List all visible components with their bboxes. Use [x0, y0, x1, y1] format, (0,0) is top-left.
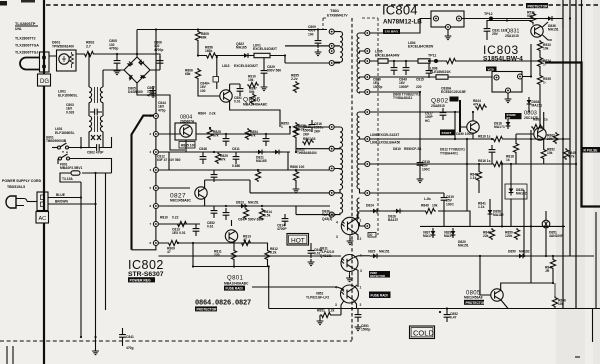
svg-text:4.7k: 4.7k [568, 155, 575, 159]
resistor R915 [243, 208, 248, 220]
svg-text:HOT: HOT [291, 237, 305, 244]
T801 primary pin e [329, 146, 334, 151]
svg-text:TBD5154-5: TBD5154-5 [7, 185, 25, 189]
black box PWM DETECTOR [369, 271, 390, 278]
wire rail down to IC802 pin1 [155, 30, 157, 114]
T801 primary winding 3 [334, 127, 342, 149]
capacitor C814 [282, 214, 289, 226]
black box STAND BY [505, 113, 522, 119]
svg-text:ETX98M417V: ETX98M417V [327, 14, 348, 18]
inductor L804 [418, 59, 430, 63]
transistor Q803 [534, 128, 546, 140]
T801 secondary winding 2 [357, 51, 365, 78]
capacitor C809 rail [317, 28, 319, 30]
svg-text:ELF18060SL: ELF18060SL [55, 131, 75, 135]
svg-text:0.61: 0.61 [207, 225, 214, 229]
svg-text:EXCELB4CM2W: EXCELB4CM2W [408, 45, 434, 49]
capacitor C853 [211, 170, 218, 182]
capacitor C851a [237, 84, 244, 96]
wire row y256 [380, 255, 594, 257]
svg-text:100: 100 [308, 32, 314, 36]
T801 primary pin g [329, 190, 334, 195]
svg-text:IO: IO [369, 233, 373, 237]
wire pin3 row [159, 152, 291, 170]
svg-text:67k: 67k [220, 158, 226, 162]
svg-text:3: 3 [335, 303, 337, 307]
svg-text:TPW58061400: TPW58061400 [52, 45, 74, 49]
resistor R856 [205, 53, 217, 58]
T801 secondary pin b [365, 49, 370, 54]
T801 secondary winding 1 [357, 33, 365, 53]
svg-text:1.5k: 1.5k [264, 214, 271, 218]
svg-text:TP12: TP12 [484, 12, 493, 16]
svg-text:STR-S6307: STR-S6307 [128, 271, 164, 278]
transistor Q831 [531, 25, 543, 37]
HOT box [287, 234, 309, 246]
svg-text:1-: 1- [543, 81, 546, 85]
wire cold rail drop [592, 309, 594, 343]
svg-text:MA151: MA151 [548, 28, 559, 32]
svg-text:EXCELS4CM2T: EXCELS4CM2T [253, 47, 277, 51]
svg-text:ELF18060SL: ELF18060SL [58, 94, 78, 98]
svg-text:DETECTOR: DETECTOR [370, 274, 385, 278]
capacitor C829 [263, 58, 265, 66]
diode D823 [238, 204, 248, 209]
T801 secondary winding 7 [357, 193, 365, 226]
transistor Q805 [491, 289, 503, 301]
AC plug [6, 196, 37, 208]
diode D834 [527, 97, 532, 107]
svg-text:100C: 100C [446, 202, 455, 206]
T801 secondary winding 4 [357, 112, 365, 139]
capacitor C855 [263, 134, 270, 146]
resistor R849 [424, 208, 436, 213]
diode D825 [358, 255, 370, 257]
svg-text:MA1?1: MA1?1 [494, 125, 505, 129]
wire mesh vertical c [287, 152, 289, 170]
svg-text:R849: R849 [421, 204, 429, 208]
AC box [36, 212, 49, 224]
T801 primary pin c [329, 61, 334, 66]
wire Q831 circuit [487, 5, 552, 40]
svg-text:68k: 68k [201, 36, 207, 40]
capacitor C849 [405, 61, 407, 63]
wire right mesh vertical c [501, 164, 503, 226]
wire [216, 57, 218, 89]
svg-text:4700p: 4700p [147, 93, 156, 97]
IC802 outline [132, 116, 156, 250]
diode D836 [545, 16, 555, 21]
svg-text:UNL: UNL [15, 27, 22, 31]
thick bus wire [545, 63, 600, 207]
wire start circuit row [198, 46, 329, 63]
IC802 pin 2 [153, 132, 158, 137]
T801 secondary pin e [365, 90, 370, 95]
svg-text:PROTECTOR: PROTECTOR [528, 4, 549, 8]
svg-text:THB8448404: THB8448404 [297, 151, 317, 155]
T801 primary pin d [329, 125, 334, 130]
svg-text:500V 560: 500V 560 [267, 69, 281, 73]
svg-text:1EX 0.01: 1EX 0.01 [172, 231, 186, 235]
svg-text:D823: D823 [236, 201, 244, 205]
ground IC803 [507, 93, 509, 96]
svg-text:MBA1048AABC: MBA1048AABC [243, 103, 268, 107]
mains vertical runs to bottom [81, 173, 112, 337]
resistor R847 [550, 258, 555, 270]
svg-text:T3.15A: T3.15A [62, 177, 73, 181]
black box START [440, 130, 455, 136]
resistor R850 [514, 228, 519, 240]
wire primary pin c left row [284, 54, 286, 56]
capacitor C851 [351, 307, 353, 309]
svg-text:BA157: BA157 [388, 218, 398, 222]
capacitor C806 [150, 56, 160, 70]
COLD box [410, 326, 435, 339]
T801 primary pin extra [329, 49, 334, 54]
degauss connector CN601 [40, 52, 50, 72]
svg-text:R851: R851 [317, 309, 325, 313]
wire mesh vertical a [168, 152, 170, 170]
opto coupler D836 [341, 217, 358, 234]
inductor L8V1 [254, 53, 270, 57]
svg-text:2SA8515: 2SA8515 [431, 104, 445, 108]
svg-text:T801: T801 [330, 8, 340, 13]
svg-text:ELE18M101K: ELE18M101K [430, 70, 451, 74]
resistor R858 [445, 58, 457, 63]
resistor R826 [255, 170, 260, 182]
svg-text:470p: 470p [158, 108, 166, 112]
svg-text:MA1?: MA1? [444, 234, 453, 238]
T801 primary winding 6 [334, 193, 342, 215]
svg-text:12V REG: 12V REG [385, 30, 399, 34]
T801 secondary pin g [365, 137, 370, 142]
resistor R825b [207, 128, 212, 140]
wire down to row [193, 243, 269, 267]
svg-text:220: 220 [416, 85, 422, 89]
svg-text:JR: JR [545, 269, 550, 273]
resistor R865 [179, 142, 195, 149]
scan shading right edge [556, 0, 600, 364]
svg-text:470g: 470g [126, 346, 134, 350]
svg-text:4AN100R: 4AN100R [549, 234, 564, 238]
svg-text:50k: 50k [249, 90, 255, 94]
svg-text:4: 4 [336, 221, 338, 225]
capacitor C818 [417, 158, 424, 170]
IC802 pin numbers [150, 114, 152, 245]
wire filter to bridge [103, 69, 124, 71]
svg-text:TLX2806TTGA: TLX2806TTGA [15, 44, 39, 48]
svg-text:D4SBS60: D4SBS60 [128, 90, 143, 94]
T801 secondary pin d [365, 75, 370, 80]
svg-text:10k: 10k [547, 151, 553, 155]
wire BLUE [48, 197, 81, 199]
cold ground rail [269, 308, 600, 310]
line filter L601 [89, 54, 103, 148]
svg-text:4700p: 4700p [154, 48, 163, 52]
wire DG to posistor [44, 56, 57, 74]
svg-text:MBA0F2.5BV1: MBA0F2.5BV1 [60, 166, 83, 170]
svg-text:47k: 47k [473, 103, 479, 107]
svg-text:ECE82C22U15E: ECE82C22U15E [441, 90, 467, 94]
svg-text:PROTECTOR: PROTECTOR [197, 308, 218, 312]
wire secondary pin g row [370, 138, 570, 140]
svg-text:HC: HC [425, 119, 430, 123]
capacitor C856 [223, 208, 230, 220]
T801 secondary pin i [365, 191, 370, 196]
svg-text:D824: D824 [366, 204, 374, 208]
svg-text:MA151: MA151 [458, 244, 469, 248]
capacitor C840 [393, 61, 395, 63]
inductor L808 [436, 75, 448, 79]
svg-text:100C: 100C [422, 167, 431, 171]
wire right mesh vertical d [523, 190, 525, 256]
small mark bottom right [575, 356, 580, 358]
wire pin4 to transformer [290, 169, 329, 171]
svg-text:TLX2806TT2: TLX2806TT2 [15, 37, 36, 41]
svg-text:TP11: TP11 [428, 54, 436, 58]
svg-text:120k: 120k [505, 234, 513, 238]
diode D821 [255, 150, 265, 155]
svg-text:1500p: 1500p [361, 328, 370, 332]
junction dots mesh [295, 151, 297, 153]
svg-text:Q43(3): Q43(3) [322, 217, 332, 221]
wire secondary pin a to IC804 [370, 19, 431, 34]
T801 primary winding 4 [334, 149, 342, 169]
svg-text:MA151: MA151 [248, 201, 259, 205]
wire right mesh vertical b [466, 139, 468, 211]
T801 secondary pin a [365, 31, 370, 36]
opto coupler Q825 [341, 255, 358, 272]
wire secondary pin i row [370, 192, 444, 194]
inductor L815 [378, 59, 388, 63]
capacitor C815 [428, 63, 430, 66]
svg-text:BY: BY [507, 116, 511, 120]
svg-text:0.033: 0.033 [66, 110, 74, 114]
svg-text:0864.0826.0827: 0864.0826.0827 [195, 300, 251, 308]
test point TP12 [489, 17, 493, 21]
bridge + output wire [136, 30, 138, 58]
wire primary pin g left [250, 192, 329, 194]
svg-text:1: 1 [360, 286, 362, 290]
svg-text:R PULSE: R PULSE [584, 149, 598, 153]
bridge - output, capacitor C807 [137, 83, 185, 150]
AC connector CN801 [37, 192, 48, 211]
capacitor C841 [122, 328, 124, 330]
black box VCB [486, 67, 497, 72]
resistor R855 [293, 122, 298, 134]
transistor Q813 [225, 230, 237, 242]
svg-text:2SC1475: 2SC1475 [524, 116, 538, 120]
op-amp U IC804 body [431, 11, 464, 27]
diode D838 in box [505, 184, 527, 199]
svg-text:M8C2456A8: M8C2456A8 [464, 296, 483, 300]
wire IC804 out TP12 [462, 19, 564, 29]
capacitor C842 [223, 134, 230, 146]
chassis edge thick vertical line [43, 0, 45, 364]
svg-text:MA165: MA165 [256, 159, 267, 163]
ground IC804 [447, 30, 449, 34]
svg-text:1s: 1s [544, 118, 548, 122]
svg-text:1500p: 1500p [373, 85, 382, 89]
svg-text:0.22: 0.22 [172, 216, 179, 220]
svg-text:68k: 68k [185, 72, 191, 76]
wire Q804 collector row [196, 127, 290, 134]
resistor R848 [476, 170, 481, 182]
resistor R825 [215, 152, 220, 164]
svg-text:S1854LBW-4: S1854LBW-4 [483, 55, 523, 62]
svg-text:C841: C841 [126, 335, 134, 339]
svg-text:MA171: MA171 [423, 234, 434, 238]
T801 secondary winding 3 [357, 77, 365, 93]
svg-text:R866 100: R866 100 [290, 165, 304, 169]
IC803 pin 1 [518, 74, 523, 79]
svg-text:R807 33: R807 33 [303, 137, 316, 141]
transistor Q802 [467, 121, 479, 133]
resistor R811 [231, 249, 236, 261]
resistor R802 [83, 51, 95, 56]
svg-text:22k: 22k [483, 234, 489, 238]
svg-text:L808 EXCELBAA50: L808 EXCELBAA50 [370, 141, 400, 145]
resistor R846 [552, 296, 557, 308]
wire pin8 to opto row [159, 255, 342, 257]
T801 secondary winding 5 [357, 139, 365, 164]
svg-text:L-8s: L-8s [424, 197, 431, 201]
wire primary pin h left [296, 206, 329, 215]
IC802 pin 4 [153, 168, 158, 173]
capacitor C816 [309, 120, 316, 132]
T801 secondary pin h [365, 162, 370, 167]
switch S601a [52, 143, 92, 149]
svg-text:67k: 67k [213, 134, 219, 138]
diode Q822 [241, 53, 251, 58]
wire primary pin b left [285, 45, 329, 47]
svg-text:R865 100: R865 100 [181, 144, 195, 148]
wire opto to cold rail [354, 300, 357, 309]
resistor R535 [537, 74, 542, 86]
capacitor C84A [310, 243, 312, 246]
svg-text:0.47: 0.47 [450, 316, 457, 320]
resistor R834 [537, 56, 542, 68]
switch S601b [58, 151, 112, 173]
diode D829 [451, 228, 456, 238]
bridge rectifier D805 [124, 57, 150, 83]
svg-text:FUSE RADI: FUSE RADI [371, 294, 388, 298]
svg-text:D810: D810 [393, 147, 401, 151]
svg-text:1k: 1k [506, 158, 510, 162]
wire cord tails bottom left [7, 346, 13, 364]
scan corner mark [0, 1, 7, 6]
svg-text:0.01: 0.01 [234, 100, 241, 104]
svg-text:C802 470P: C802 470P [87, 151, 104, 155]
capacitor C811 [233, 152, 240, 164]
diode D850 [516, 254, 526, 259]
LED D851 [542, 211, 550, 256]
T801 secondary pin f [365, 110, 370, 115]
bottom isolation dashed line [0, 340, 352, 342]
svg-text:1000P: 1000P [399, 85, 409, 89]
svg-text:100: 100 [200, 89, 206, 93]
svg-text:3: 3 [336, 235, 338, 239]
svg-text:R810: R810 [160, 216, 168, 220]
svg-text:FUSE RADI: FUSE RADI [226, 287, 243, 291]
svg-text:L813: L813 [222, 64, 230, 68]
wire down to cold rail [268, 267, 270, 309]
node [88, 53, 90, 55]
svg-text:D850: D850 [508, 250, 516, 254]
junction dots right area [562, 138, 564, 140]
wire pin6 row [159, 205, 331, 207]
12V rail [370, 60, 545, 62]
CRT socket label block [15, 22, 39, 55]
IC804 pin 3 [434, 16, 439, 21]
diode D837 [431, 228, 436, 238]
svg-text:C815: C815 [416, 78, 424, 82]
IC802 pin 1 [153, 114, 158, 119]
T801 primary winding 2 [334, 46, 342, 63]
fuse F801 [60, 171, 112, 182]
svg-text:R550CF-S1: R550CF-S1 [404, 147, 422, 151]
svg-text:47: 47 [167, 250, 171, 254]
wire right mesh vertical a [454, 112, 456, 139]
T801 primary pin b [329, 43, 334, 48]
wire secondary pin h row [370, 163, 576, 165]
svg-text:L806 EXCELS4Z4T: L806 EXCELS4Z4T [370, 133, 399, 137]
svg-text:4700P: 4700P [277, 227, 287, 231]
vertical bus line D [581, 0, 583, 62]
svg-text:160k: 160k [205, 49, 213, 53]
T801 primary winding 1 [334, 32, 342, 47]
svg-text:1.1k: 1.1k [470, 176, 477, 180]
svg-text:VCB: VCB [488, 67, 495, 71]
wire Q827 collector row [205, 180, 250, 193]
wire mains AC upper [76, 54, 160, 70]
svg-text:MBA1048AABC: MBA1048AABC [224, 281, 249, 285]
resistor R807 [302, 139, 314, 144]
svg-text:2KF: 2KF [314, 129, 320, 133]
svg-text:MA151: MA151 [532, 104, 543, 108]
svg-text:10k: 10k [248, 78, 254, 82]
svg-text:MA182: MA182 [493, 213, 504, 217]
top chassis dashed line [46, 4, 600, 6]
capacitor C819 [441, 193, 448, 205]
svg-text:10k: 10k [558, 302, 564, 306]
wire right mesh vertical e [530, 130, 532, 283]
IC802 pin 8 [153, 241, 158, 246]
resistor R854b [247, 133, 249, 135]
svg-text:0.680: 0.680 [232, 164, 240, 168]
svg-text:10k: 10k [432, 204, 438, 208]
vertical bus line B [569, 0, 571, 256]
svg-text:C850 1000P: C850 1000P [456, 132, 475, 136]
svg-text:47: 47 [243, 238, 247, 242]
svg-text:220: 220 [214, 253, 220, 257]
svg-text:TLX2806TP: TLX2806TP [15, 22, 36, 26]
T801 secondary pin c [365, 59, 370, 64]
svg-text:C848: C848 [199, 147, 207, 151]
svg-text:AC: AC [39, 216, 47, 222]
svg-text:1: 1 [360, 219, 362, 223]
black box R PULSE [582, 147, 600, 153]
transformer T801 dashed frame [323, 18, 378, 235]
T801 primary winding 5 [334, 169, 342, 193]
node GZ box [213, 77, 219, 83]
svg-text:2.7: 2.7 [86, 45, 91, 49]
transistor Q826 [220, 90, 232, 102]
svg-text:POWER REG: POWER REG [130, 278, 151, 282]
B+ rail wire [137, 29, 327, 31]
T801 primary pin f [329, 166, 334, 171]
svg-text:IC804: IC804 [382, 3, 418, 18]
